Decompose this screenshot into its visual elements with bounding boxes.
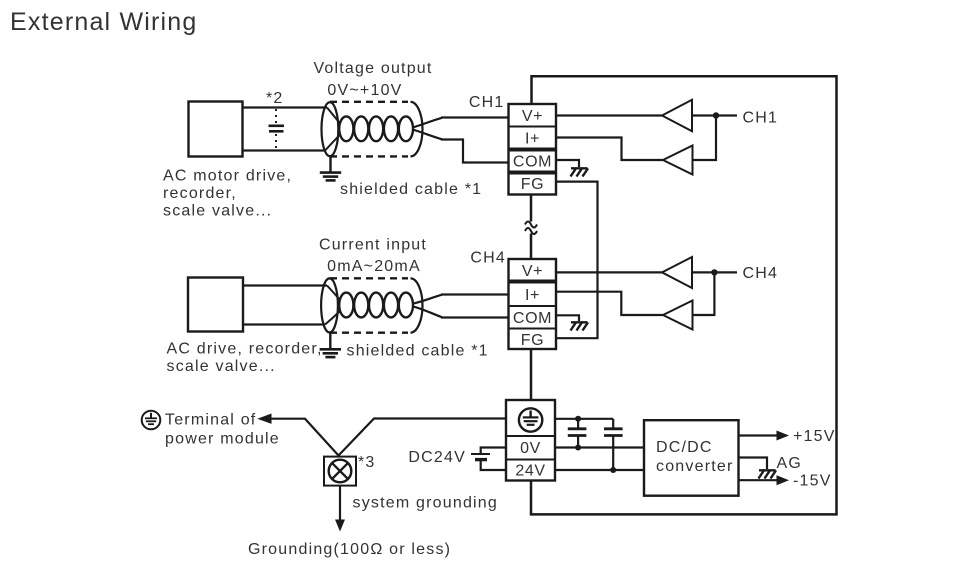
svg-text:COM: COM xyxy=(513,310,552,327)
wire power earth cell to system grounding V xyxy=(339,419,507,456)
svg-text:V+: V+ xyxy=(522,263,543,280)
wire cable 1 top exit to terminal V+ xyxy=(441,116,509,118)
shielded cable 2 entry converge wires xyxy=(325,286,341,325)
wire CH1 COM stub to chassis ground xyxy=(556,160,579,167)
junction cap C1 top xyxy=(575,416,581,422)
terminal block CH1 xyxy=(509,104,557,195)
chassis ground AG xyxy=(759,470,777,478)
wire +15V output xyxy=(739,434,779,436)
svg-text:V+: V+ xyxy=(522,108,543,125)
junction cap C2 bottom xyxy=(610,467,616,473)
wire -15V output xyxy=(739,479,779,481)
wire CH1 FG down to CH4 FG xyxy=(556,182,598,339)
svg-text:COM: COM xyxy=(513,154,552,171)
svg-text:Voltage output: Voltage output xyxy=(313,60,432,77)
arrowhead +15V xyxy=(777,431,790,441)
svg-text:AG: AG xyxy=(777,455,803,472)
svg-text:CH1: CH1 xyxy=(743,110,779,127)
svg-text:*2: *2 xyxy=(266,90,284,107)
svg-text:AC drive, recorder,: AC drive, recorder, xyxy=(167,341,323,358)
voltage source box (AC motor drive) xyxy=(189,102,243,157)
svg-text:External Wiring: External Wiring xyxy=(10,8,198,36)
wire CH1 V+ to amplifier xyxy=(556,114,662,116)
battery DC24V xyxy=(471,448,506,471)
svg-text:power module: power module xyxy=(165,431,280,448)
svg-text:converter: converter xyxy=(656,458,734,475)
shielded cable 1 shield body (dashed) xyxy=(330,102,408,157)
svg-text:0V: 0V xyxy=(520,440,541,457)
chassis ground at CH4 COM xyxy=(571,322,589,330)
wire CH4 V+ to amplifier xyxy=(556,271,662,273)
shielded cable 2 shield body (dashed) xyxy=(330,278,408,332)
module frame xyxy=(531,76,837,514)
wire break squiggle between blocks xyxy=(525,195,537,260)
svg-text:CH4: CH4 xyxy=(470,250,506,267)
svg-text:scale valve...: scale valve... xyxy=(163,203,272,220)
arrowhead to terminal of power module xyxy=(257,414,271,424)
capacitor C2 xyxy=(604,419,623,470)
svg-text:shielded cable *1: shielded cable *1 xyxy=(340,181,482,198)
svg-text:CH1: CH1 xyxy=(469,94,505,111)
svg-text:FG: FG xyxy=(521,176,544,193)
wire power earth cell to caps xyxy=(555,418,613,420)
svg-text:DC/DC: DC/DC xyxy=(656,439,713,456)
shielded cable 2 exit diverge wires xyxy=(413,295,443,318)
current source box (AC drive) xyxy=(188,278,243,332)
shielded cable 1 exit diverge wires xyxy=(413,118,443,140)
wire amplifier CH1 current output up xyxy=(693,116,717,161)
ground symbol under cable 1 xyxy=(320,156,341,180)
svg-text:*3: *3 xyxy=(358,454,376,471)
wire cable 1 bottom exit jog to terminal COM xyxy=(441,140,509,163)
shielded cable 1 coil loops xyxy=(339,116,413,141)
junction CH4 xyxy=(711,269,717,275)
op-amp buffer CH1 current xyxy=(663,146,693,175)
op-amp buffer CH4 current xyxy=(663,301,693,330)
arrowhead -15V xyxy=(777,475,790,485)
wire AG output xyxy=(739,458,768,470)
svg-text:I+: I+ xyxy=(525,287,540,304)
wire 0V to DC/DC xyxy=(555,446,644,448)
svg-text:0V~+10V: 0V~+10V xyxy=(327,82,402,99)
ground symbol under cable 2 xyxy=(320,333,341,357)
shielded cable 2 left end ellipse xyxy=(321,278,338,332)
svg-text:24V: 24V xyxy=(515,463,545,480)
wire system grounding V to terminal arrow xyxy=(269,419,339,456)
svg-text:Terminal of: Terminal of xyxy=(165,412,256,429)
svg-text:Current input: Current input xyxy=(319,237,427,254)
shielded cable 1 entry converge wires xyxy=(325,108,341,151)
wire cable 2 top exit to terminal I+ xyxy=(441,293,509,295)
wire 24V to DC/DC xyxy=(555,469,644,471)
wire cable 2 bottom exit to terminal COM xyxy=(441,316,509,318)
junction cap C1 bottom xyxy=(575,445,581,451)
arrowhead grounding xyxy=(335,520,345,532)
wire CH4 I+ jog to amplifier xyxy=(556,292,663,315)
svg-text:+15V: +15V xyxy=(793,428,836,445)
svg-text:Grounding(100Ω or less): Grounding(100Ω or less) xyxy=(248,541,451,558)
wire amplifier CH1 output xyxy=(692,114,737,116)
wire amplifier CH4 current output up xyxy=(693,272,715,315)
chassis ground at CH1 COM xyxy=(571,168,589,176)
protective earth symbol in power block xyxy=(519,408,542,431)
op-amp buffer CH1 voltage xyxy=(662,100,692,131)
svg-text:shielded cable *1: shielded cable *1 xyxy=(347,343,489,360)
wire source box bottom to cable 1 xyxy=(242,149,325,151)
op-amp buffer CH4 voltage xyxy=(662,257,692,288)
svg-text:-15V: -15V xyxy=(793,473,832,490)
wire CH4 COM stub to chassis ground xyxy=(556,315,579,321)
terminal block CH4 xyxy=(509,259,557,349)
svg-text:I+: I+ xyxy=(525,131,540,148)
shielded cable 1 right end arc xyxy=(411,102,423,157)
wire CH4 FG down to power block xyxy=(530,349,533,400)
svg-text:0mA~20mA: 0mA~20mA xyxy=(327,258,421,275)
svg-text:system grounding: system grounding xyxy=(353,495,499,512)
wire CH1 I+ jog to amplifier xyxy=(556,138,663,161)
shielded cable 2 right end arc xyxy=(411,278,423,332)
DC/DC converter box xyxy=(644,420,739,496)
system grounding terminal symbol (circle X) xyxy=(324,457,356,486)
wire source box 2 top to cable 2 xyxy=(243,284,327,286)
wire down arrow to grounding xyxy=(339,486,341,522)
wire source box 2 bottom to cable 2 xyxy=(243,323,325,325)
wire amplifier CH4 output xyxy=(692,271,737,273)
terminal of power module icon xyxy=(142,411,161,430)
svg-text:CH4: CH4 xyxy=(743,265,779,282)
svg-text:DC24V: DC24V xyxy=(408,449,466,466)
svg-text:scale valve...: scale valve... xyxy=(167,358,276,375)
junction CH1 xyxy=(713,112,719,118)
svg-text:FG: FG xyxy=(521,332,544,349)
capacitor C1 xyxy=(568,419,587,448)
shielded cable 2 coil loops xyxy=(339,293,413,318)
shielded cable 1 left end ellipse xyxy=(322,102,339,156)
power terminal block xyxy=(506,400,555,481)
svg-text:AC motor drive,: AC motor drive, xyxy=(163,168,292,185)
svg-text:recorder,: recorder, xyxy=(163,185,237,202)
wire source box top to cable 1 xyxy=(242,106,327,108)
stray capacitor (dotted leads) xyxy=(269,109,285,150)
